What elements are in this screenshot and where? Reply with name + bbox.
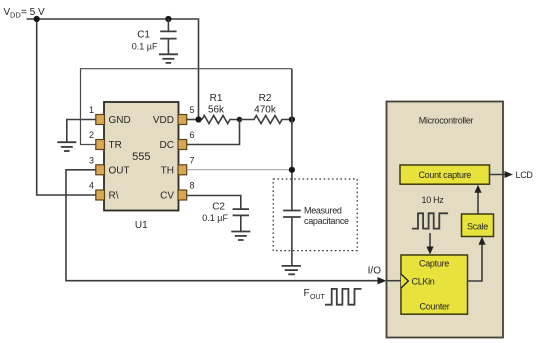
wire pin8 CV to C2 <box>187 196 241 210</box>
arrowhead into microcontroller I/O <box>378 277 387 284</box>
node junction dot TH <box>289 167 295 173</box>
waveform FOUT square wave <box>325 289 362 305</box>
svg-text:5: 5 <box>190 105 195 115</box>
wire VDD top rail <box>27 19 199 120</box>
svg-text:555: 555 <box>132 151 150 163</box>
svg-text:U1: U1 <box>135 220 148 231</box>
svg-text:TH: TH <box>161 165 174 176</box>
arrowhead LCD <box>505 171 514 178</box>
wire GND pin1 to ground <box>67 120 96 143</box>
capacitor C1 <box>132 19 177 54</box>
measured capacitance dotted box <box>273 179 357 251</box>
svg-text:0.1 µF: 0.1 µF <box>202 213 228 223</box>
svg-text:CV: CV <box>160 191 174 202</box>
block Scale <box>462 214 494 237</box>
ground at pin 1 <box>57 142 76 151</box>
svg-text:OUT: OUT <box>109 165 130 176</box>
svg-text:capacitance: capacitance <box>304 216 349 226</box>
arrowhead into Scale <box>478 237 485 245</box>
wire clock to capture block arrow <box>429 233 431 249</box>
microcontroller box <box>387 102 504 338</box>
node junction dot R2 right <box>289 116 295 122</box>
node VDD label <box>4 7 45 20</box>
svg-text:TR: TR <box>109 140 122 151</box>
svg-text:OUT: OUT <box>310 294 326 301</box>
wire OUT pin3 down and along bottom to I/O <box>66 170 378 281</box>
IC U1 555 body <box>104 102 179 231</box>
wire Count capture to LCD <box>490 174 507 176</box>
svg-text:Measured: Measured <box>304 206 342 216</box>
clock input triangle CLKin <box>401 274 408 288</box>
resistor R1 56k <box>202 93 240 124</box>
svg-text:6: 6 <box>190 130 195 140</box>
pin 4 <box>96 190 105 200</box>
wire pin5 VDD stub <box>187 119 202 121</box>
svg-text:VDD: VDD <box>153 115 174 126</box>
svg-text:470k: 470k <box>254 105 277 116</box>
svg-text:C2: C2 <box>212 202 225 213</box>
block Count capture <box>400 165 490 184</box>
svg-text:DD: DD <box>10 11 21 20</box>
wire pin6 DC to R1/R2 junction <box>187 120 240 145</box>
svg-text:7: 7 <box>190 155 195 165</box>
svg-text:CLKin: CLKin <box>412 277 435 287</box>
svg-text:2: 2 <box>89 130 94 140</box>
pin 6 <box>178 140 187 150</box>
node junction dot pin5/top rail <box>195 116 201 122</box>
resistor R2 470k <box>240 93 292 124</box>
ground below measured capacitance <box>282 266 301 274</box>
svg-text:= 5 V: = 5 V <box>21 7 45 18</box>
svg-text:3: 3 <box>89 155 94 165</box>
waveform 10 Hz clock <box>412 213 448 228</box>
ground below C1 <box>159 54 178 63</box>
wire pin7 TH to node (thin) <box>187 169 292 171</box>
arrowhead into Capture <box>426 247 433 255</box>
wire I/O to CLKin inside MC <box>387 280 402 282</box>
svg-text:R2: R2 <box>259 93 272 104</box>
svg-text:0.1 µF: 0.1 µF <box>132 42 158 52</box>
svg-text:C1: C1 <box>137 30 150 41</box>
svg-text:DC: DC <box>160 140 174 151</box>
pin 5 <box>178 115 187 125</box>
node FOUT label <box>304 288 326 301</box>
capacitor measured capacitance <box>283 206 349 266</box>
svg-text:Counter: Counter <box>420 302 450 312</box>
node junction dot VDD left <box>34 16 40 22</box>
pin 2 <box>96 140 105 150</box>
svg-text:10 Hz: 10 Hz <box>421 195 444 205</box>
block Capture / CLKin / Counter <box>401 255 468 314</box>
capacitor C2 <box>202 202 249 232</box>
pin 1 <box>96 115 105 125</box>
svg-text:8: 8 <box>190 181 195 191</box>
node junction dot C1 tap <box>165 16 171 22</box>
svg-text:GND: GND <box>109 115 131 126</box>
pin 3 <box>96 165 105 175</box>
svg-text:F: F <box>304 288 310 299</box>
ground below C2 <box>231 232 250 241</box>
pin 8 <box>178 190 187 200</box>
svg-text:Scale: Scale <box>467 222 488 232</box>
wire Counter to Scale arrow <box>468 242 483 282</box>
arrowhead into Count capture <box>474 185 481 193</box>
svg-text:1: 1 <box>89 105 94 115</box>
svg-text:Microcontroller: Microcontroller <box>419 116 474 126</box>
wire VDD left drop to reset pin 4 <box>37 19 96 195</box>
wire R2 node down through TH to measured cap <box>291 69 293 211</box>
svg-text:LCD: LCD <box>516 170 534 180</box>
svg-text:Capture: Capture <box>419 259 449 269</box>
svg-text:56k: 56k <box>208 105 225 116</box>
wire TR loop (pin2 up and over to R2 node) <box>81 69 292 145</box>
svg-text:4: 4 <box>89 181 94 191</box>
svg-text:Count capture: Count capture <box>418 170 471 180</box>
svg-text:R1: R1 <box>210 93 223 104</box>
wire Scale to Count capture arrow <box>477 190 479 214</box>
pin 7 <box>178 165 187 175</box>
svg-text:I/O: I/O <box>368 266 382 277</box>
node junction dot R1/R2/DC <box>237 117 242 122</box>
svg-text:R\: R\ <box>109 191 119 202</box>
